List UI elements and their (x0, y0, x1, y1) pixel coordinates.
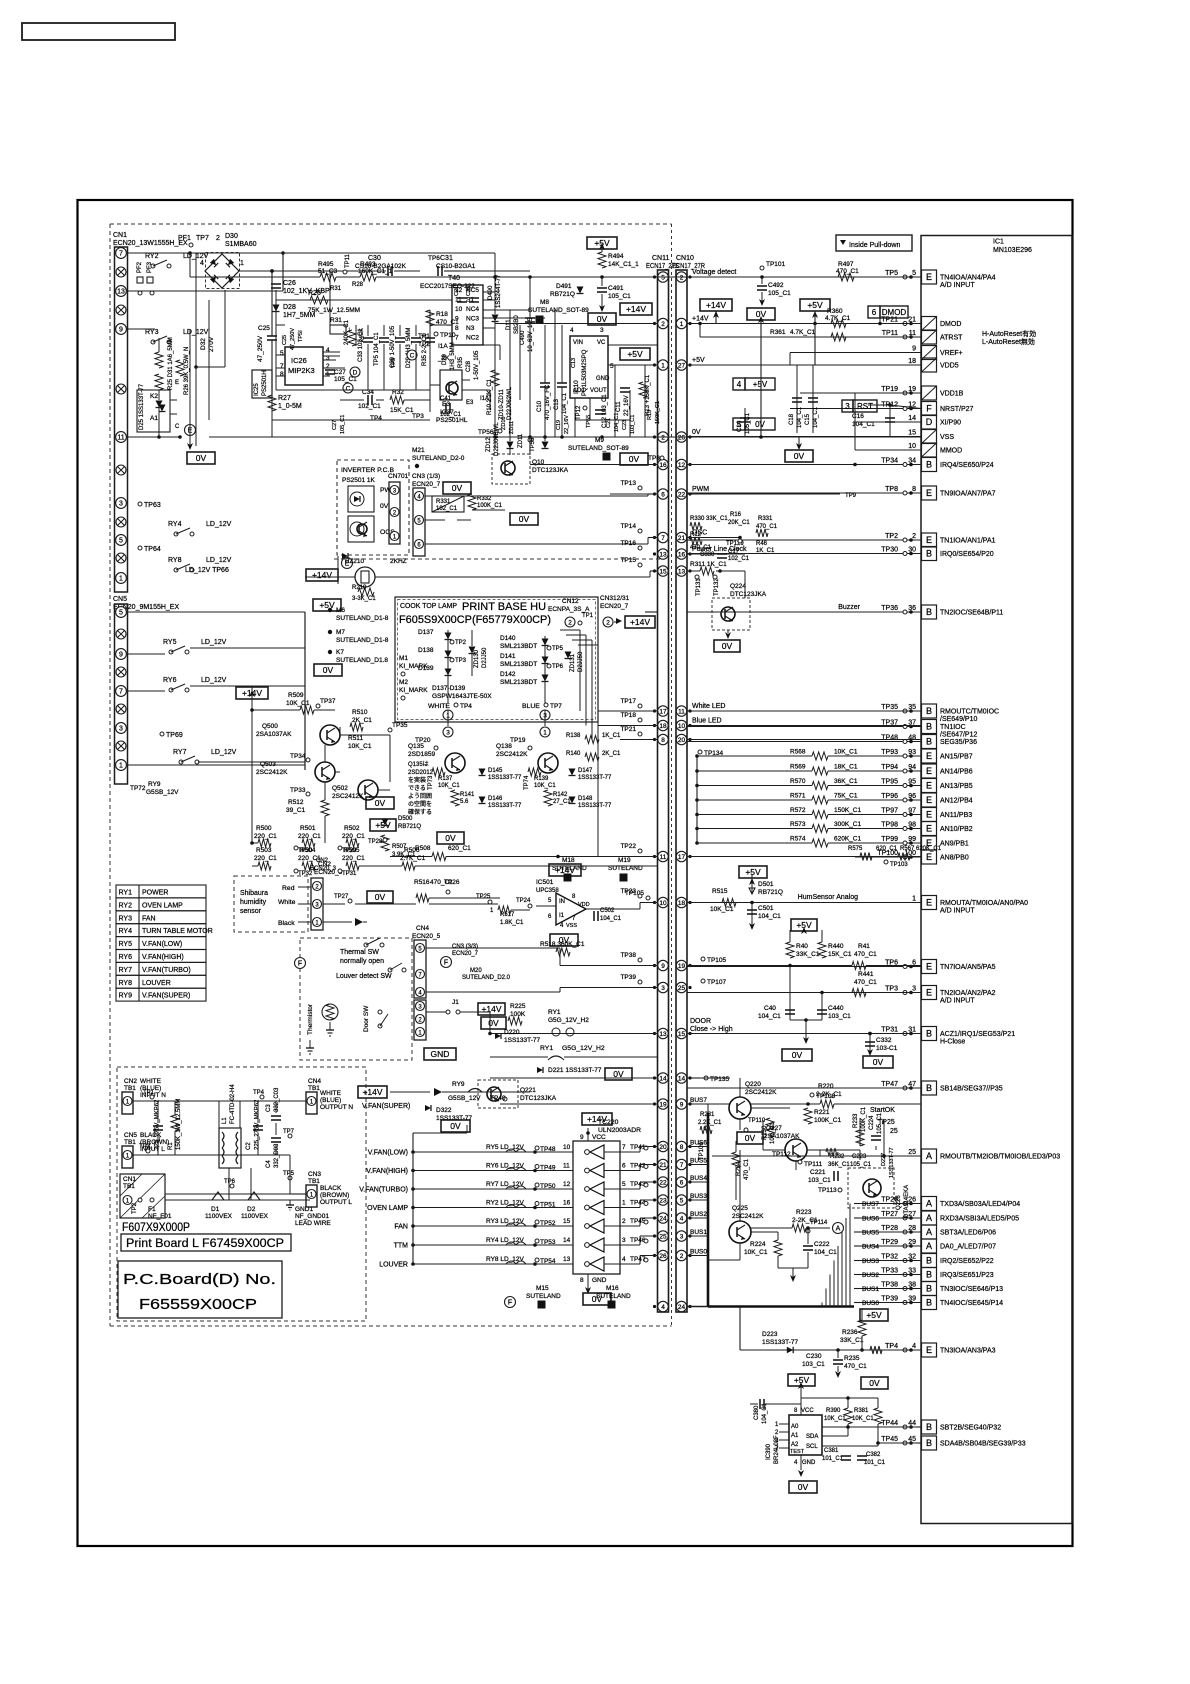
svg-text:104_C1: 104_C1 (758, 913, 781, 920)
rail y420 (340, 399, 364, 401)
svg-text:TP112: TP112 (772, 1151, 791, 1158)
svg-text:D137-D139: D137-D139 (432, 685, 466, 692)
svg-text:220_C1: 220_C1 (342, 855, 365, 862)
svg-text:R332: R332 (477, 496, 492, 502)
svg-text:17: 17 (659, 708, 667, 715)
svg-text:C21: C21 (454, 286, 460, 296)
svg-text:SUTELAND_SOT-89: SUTELAND_SOT-89 (568, 445, 629, 452)
wire left CN5 rail to Q cluster (304, 612, 306, 770)
svg-text:15K_C1: 15K_C1 (828, 951, 852, 958)
connector CN2 TB1 INPUT N (122, 1078, 166, 1114)
svg-text:R441: R441 (858, 971, 874, 978)
svg-text:0V: 0V (375, 798, 386, 808)
svg-text:B: B (926, 1422, 932, 1432)
svg-text:IN: IN (559, 899, 565, 905)
svg-text:R40: R40 (796, 943, 808, 950)
svg-text:ECNPA_3S_A: ECNPA_3S_A (548, 606, 590, 613)
svg-text:9: 9 (680, 1101, 684, 1108)
svg-text:C: C (410, 352, 415, 359)
svg-text:103_C1: 103_C1 (828, 1013, 851, 1020)
svg-text:Q220: Q220 (745, 1081, 761, 1088)
relay coil sym at 1189 (506, 1186, 526, 1189)
svg-text:R493: R493 (360, 261, 376, 268)
svg-text:TP22: TP22 (620, 843, 636, 850)
svg-text:105_C1: 105_C1 (340, 415, 346, 434)
svg-text:100K: 100K (510, 1011, 526, 1018)
svg-text:SML213BDT: SML213BDT (500, 661, 537, 668)
svg-text:E: E (926, 852, 932, 862)
svg-text:DTC123JKA: DTC123JKA (520, 1095, 557, 1102)
svg-text:332_C03: 332_C03 (274, 1087, 280, 1112)
svg-text:RY9: RY9 (452, 1081, 465, 1088)
bus row pins 1/27 +5V (653, 357, 705, 370)
wire CN1 row13 (127, 290, 283, 292)
svg-text:0V: 0V (722, 641, 733, 651)
svg-text:RB721Q: RB721Q (758, 889, 783, 896)
bus row pins 20/8 BUS6 (653, 1141, 692, 1151)
extra caps C19 C21 labels (556, 413, 636, 434)
svg-text:R233: R233 (853, 1113, 859, 1128)
svg-text:/SE647/P12: /SE647/P12 (940, 732, 977, 739)
svg-text:2SD2012: 2SD2012 (408, 770, 434, 776)
svg-text:Blue LED: Blue LED (692, 718, 722, 725)
net label box +5V (587, 237, 617, 249)
svg-text:8: 8 (455, 325, 459, 332)
CN20 CN2 label (310, 858, 337, 872)
svg-text:0V: 0V (629, 454, 640, 464)
svg-text:WHITE: WHITE (320, 1090, 342, 1097)
svg-text:SUTELAND: SUTELAND (596, 1293, 631, 1300)
IC1 pin 30 IRQ0/SE654/P20 (687, 547, 994, 561)
svg-text:10: 10 (678, 723, 686, 730)
svg-text:18: 18 (908, 358, 916, 365)
svg-text:TP5: TP5 (391, 358, 397, 368)
svg-text:10: 10 (659, 900, 667, 907)
svg-text:V.FAN(LOW): V.FAN(LOW) (142, 941, 182, 948)
PWM OV OCS labels (380, 487, 397, 536)
wire bus to Q224 (687, 611, 721, 613)
svg-text:R510: R510 (352, 709, 368, 716)
svg-text:B: B (926, 1029, 932, 1039)
zener ZD130 D2JJ50 (469, 630, 489, 676)
transformer T40 ECC2017SEO-222 (420, 275, 483, 345)
svg-text:103-C1: 103-C1 (876, 1045, 898, 1052)
IC1 pin 39 TN4IOC/SE645/P14 (860, 1296, 1003, 1310)
svg-text:TN3IOA/AN3/PA3: TN3IOA/AN3/PA3 (940, 1348, 996, 1355)
svg-text:sensor: sensor (240, 908, 262, 915)
R515 10K_C1 (625, 888, 736, 913)
svg-text:33K_C1: 33K_C1 (796, 951, 820, 958)
svg-text:NF_GND01: NF_GND01 (295, 1213, 329, 1220)
bus label BUS1 (854, 1286, 921, 1293)
StartOK riser (883, 1120, 885, 1156)
svg-text:R573: R573 (790, 821, 806, 828)
row 365 +5V left (621, 344, 657, 346)
svg-text:VSS: VSS (566, 923, 577, 929)
svg-text:ZD10-ZD11: ZD10-ZD11 (499, 388, 505, 420)
svg-text:の空間を: の空間を (408, 800, 432, 808)
svg-text:R221: R221 (814, 1109, 830, 1116)
svg-text:22: 22 (678, 491, 686, 498)
svg-text:TP24: TP24 (516, 898, 531, 904)
LED string wires (447, 630, 449, 703)
D491 RB721Q C491 105_C1 (550, 277, 631, 312)
C330 103_C1 C17 102_C1 (700, 549, 750, 562)
svg-text:SEG35/P36: SEG35/P36 (940, 739, 977, 746)
svg-text:TN9IOA/AN7/PA7: TN9IOA/AN7/PA7 (940, 491, 996, 498)
thermal sw dashed box (300, 938, 412, 1060)
D221 1SS133T-77 (537, 1067, 602, 1074)
fan row left rail (412, 1133, 414, 1264)
svg-text:V.FAN(HIGH): V.FAN(HIGH) (142, 954, 184, 961)
resistor R574 620K_C1 (695, 836, 861, 848)
net label box 0V (620, 453, 648, 465)
svg-text:K2: K2 (150, 393, 158, 400)
svg-text:R31: R31 (330, 286, 342, 292)
svg-text:GND: GND (802, 1460, 816, 1466)
M21 SUTELAND_D2-0 (412, 447, 465, 468)
svg-text:C14: C14 (737, 420, 743, 432)
svg-text:TP45: TP45 (630, 1218, 646, 1225)
bridge output rail (240, 270, 272, 272)
svg-text:24CK: 24CK (359, 328, 365, 342)
svg-text:TP44: TP44 (630, 1200, 646, 1207)
transistor Q138 2SC2412K (496, 737, 558, 773)
svg-text:WHITE: WHITE (140, 1078, 162, 1085)
svg-text:R235: R235 (844, 1355, 860, 1362)
svg-text:220_C1: 220_C1 (342, 833, 365, 840)
svg-text:M2: M2 (399, 679, 408, 686)
svg-text:TXD3A/SB03A/LED4/P04: TXD3A/SB03A/LED4/P04 (940, 1201, 1020, 1208)
IC TC220 ULN2003ADR (573, 1119, 641, 1284)
relay contact RY8 (168, 557, 232, 572)
wires thermal rows (426, 947, 560, 949)
svg-text:2SC2412K: 2SC2412K (496, 751, 528, 758)
IC1 pin 37 TN1IOC (687, 720, 977, 739)
svg-text:BUS2: BUS2 (862, 1272, 879, 1279)
zener row wires (494, 437, 496, 449)
svg-text:6: 6 (661, 491, 665, 498)
svg-text:D145: D145 (488, 768, 503, 774)
svg-text:TP9: TP9 (845, 493, 857, 499)
riser BUS1 (825, 1289, 827, 1307)
svg-text:CN4: CN4 (416, 925, 429, 932)
connector CN10 ECN17_27R (672, 255, 705, 1312)
IC1 pin 6 TN7IOA/AN5/PA5 (687, 960, 996, 974)
svg-text:ECN20_7: ECN20_7 (452, 951, 479, 957)
LED D137 (418, 629, 467, 646)
svg-text:TP108: TP108 (816, 1093, 836, 1100)
svg-text:TN2IOC/SE64B/P11: TN2IOC/SE64B/P11 (940, 610, 1003, 617)
bus row pins 23/5 BUS3 (653, 1195, 692, 1205)
C40 104_C1 C440 103_C1 (758, 966, 851, 1045)
svg-text:470_C1: 470_C1 (854, 951, 877, 958)
svg-text:TP3: TP3 (455, 658, 467, 664)
K2 A1 opto box (137, 390, 170, 432)
svg-text:CN701: CN701 (388, 473, 409, 480)
svg-text:SUTELAND_D1-8: SUTELAND_D1-8 (336, 637, 389, 644)
IC1 pin 2 TN1IOA/AN1/PA1 (687, 533, 996, 547)
TP101 C492 (757, 261, 791, 306)
svg-text:R390: R390 (826, 1408, 841, 1414)
svg-text:20: 20 (678, 737, 686, 744)
svg-text:TP49: TP49 (540, 1165, 556, 1172)
svg-text:A/D INPUT: A/D INPUT (940, 282, 975, 289)
svg-text:0V: 0V (794, 451, 805, 461)
svg-text:R567 620K_C1: R567 620K_C1 (900, 846, 942, 852)
svg-text:4: 4 (560, 923, 564, 929)
svg-text:Q135: Q135 (408, 743, 424, 750)
svg-text:R515: R515 (712, 888, 728, 895)
IC1 pin 94 AN14/PB6 (855, 764, 973, 778)
svg-text:2: 2 (661, 434, 665, 441)
svg-text:1SS133T-77: 1SS133T-77 (488, 803, 522, 809)
svg-text:5: 5 (680, 1197, 684, 1204)
IC1 MN103E296 (921, 236, 1072, 1524)
diode D25 K2 A1 (139, 383, 166, 430)
svg-text:TP7: TP7 (196, 235, 209, 242)
svg-text:R26: R26 (308, 290, 321, 297)
svg-text:R31: R31 (330, 317, 342, 324)
svg-text:E: E (926, 781, 932, 791)
svg-text:R504: R504 (300, 847, 316, 854)
resistor R573 300K_C1 (695, 821, 861, 833)
R10 2.2K_C1 ZD10-ZD11 D22J06zWL (487, 370, 513, 420)
svg-text:ULN2003ADR: ULN2003ADR (598, 1127, 641, 1134)
R494 14K_C1_1 vertical (598, 243, 639, 268)
C490 10_63V_105 (520, 277, 535, 437)
svg-text:TP41: TP41 (630, 1144, 646, 1151)
svg-text:300K_C1: 300K_C1 (834, 821, 861, 828)
connector CN11 ECN17_27S (646, 255, 679, 1312)
svg-text:0V: 0V (445, 833, 456, 843)
IC1 pin 21 DMOD (800, 317, 961, 331)
svg-text:CN5: CN5 (124, 1132, 137, 1139)
TP66 (185, 567, 229, 574)
wire pin11 row (127, 436, 159, 438)
wires Q220 cluster (687, 1077, 730, 1079)
net label box 0V (367, 891, 393, 903)
svg-text:104_C1: 104_C1 (797, 406, 803, 428)
svg-text:D: D (353, 369, 358, 376)
svg-text:4: 4 (680, 1215, 684, 1222)
net label box 0V (187, 452, 215, 464)
svg-text:36K_C1: 36K_C1 (828, 1162, 850, 1168)
net label box +5V (788, 1374, 815, 1386)
svg-text:AN10/PB2: AN10/PB2 (940, 826, 973, 833)
E circle inverter (342, 558, 353, 569)
svg-text:2K_C1: 2K_C1 (602, 751, 621, 757)
svg-text:20: 20 (659, 1144, 667, 1151)
wire row 1078 (490, 1077, 657, 1079)
diodes D145 D146 1SS133T-77 (479, 768, 523, 809)
wire VREF pin9 (790, 352, 921, 354)
svg-text:TP72: TP72 (130, 785, 146, 792)
svg-text:/SE649/P10: /SE649/P10 (940, 716, 977, 723)
svg-text:14: 14 (908, 415, 916, 422)
R25 R26 resistors 39K (168, 337, 190, 395)
bus label BUS2 (854, 1272, 921, 1279)
svg-text:1-50V_105: 1-50V_105 (474, 350, 480, 380)
svg-text:8: 8 (912, 486, 916, 493)
svg-text:CN4: CN4 (308, 1078, 321, 1085)
svg-text:R311 1K_C1: R311 1K_C1 (690, 561, 727, 568)
svg-text:15: 15 (563, 1218, 571, 1225)
net label box +5V (800, 299, 830, 311)
riser BUS3 (833, 1261, 835, 1307)
svg-text:10K_C1: 10K_C1 (834, 749, 858, 756)
connector CN4 ECN20_5 (412, 925, 441, 998)
svg-text:V.FAN(SUPER): V.FAN(SUPER) (142, 993, 190, 1000)
svg-text:ECN20_5: ECN20_5 (412, 933, 441, 940)
svg-text:VREF+: VREF+ (940, 350, 963, 357)
ZD12 D22J06BWL (486, 422, 514, 456)
svg-text:TP31: TP31 (881, 1027, 898, 1034)
svg-text:F: F (444, 959, 448, 966)
E point circle (185, 425, 196, 436)
svg-text:21: 21 (659, 1162, 667, 1169)
svg-text:F1: F1 (148, 1206, 156, 1213)
svg-text:D11: D11 (506, 319, 512, 330)
riser BUS0 (821, 1303, 823, 1307)
wire row 856 R508 (381, 835, 657, 861)
svg-text:240K_C1: 240K_C1 (344, 319, 350, 345)
Thermal SW normally open (340, 938, 384, 965)
TP22 TP23 labels (620, 843, 642, 898)
svg-text:1H3_5MM: 1H3_5MM (450, 342, 456, 370)
svg-text:TP131: TP131 (696, 578, 702, 596)
svg-text:A: A (926, 1227, 932, 1237)
svg-text:18K_C1: 18K_C1 (834, 764, 858, 771)
svg-text:M21: M21 (412, 447, 425, 454)
eeprom wires (800, 1398, 802, 1415)
svg-text:VCC: VCC (801, 1408, 814, 1414)
svg-text:CN3: CN3 (308, 1171, 321, 1178)
svg-text:22_16V: 22_16V (624, 395, 630, 416)
svg-text:TP114: TP114 (810, 1220, 828, 1226)
IC1 pin 8 TN9IOA/AN7/PA7 (687, 486, 996, 500)
svg-text:5: 5 (548, 898, 552, 904)
TP1 TP3 TP4 TP5 TP6 TP7 testpoints filter (139, 1090, 295, 1188)
caps C3 C4 332 (266, 1087, 281, 1168)
svg-text:4: 4 (661, 1304, 665, 1311)
wire buzzer row to bus (420, 576, 650, 578)
svg-text:NF_F01: NF_F01 (148, 1213, 172, 1220)
svg-text:13: 13 (678, 568, 686, 575)
ATRST note (982, 329, 1036, 346)
svg-text:M19: M19 (618, 857, 631, 864)
svg-text:+5V: +5V (807, 300, 823, 310)
svg-text:10K_C1: 10K_C1 (770, 1122, 776, 1144)
svg-text:IRQ0/SE654/P20: IRQ0/SE654/P20 (940, 551, 994, 558)
svg-text:6: 6 (872, 308, 877, 317)
bus row pins 3/25 (653, 982, 692, 992)
svg-text:8: 8 (580, 1277, 584, 1284)
svg-text:0V: 0V (519, 514, 530, 524)
svg-text:E: E (926, 898, 932, 908)
D q circles (343, 367, 360, 393)
svg-text:TP45: TP45 (881, 1436, 898, 1443)
svg-text:4: 4 (326, 347, 330, 354)
svg-text:A/D INPUT: A/D INPUT (940, 998, 975, 1005)
net label box 0V (366, 797, 394, 809)
svg-text:+14V: +14V (692, 316, 709, 323)
svg-text:10K_C1: 10K_C1 (348, 743, 372, 750)
svg-text:Door SW: Door SW (363, 1005, 370, 1032)
R330 33K_C1 R16 20K_C1 (690, 512, 750, 530)
wire TP19/TP12 rows (855, 392, 921, 394)
svg-text:C25: C25 (258, 325, 270, 332)
D501 RB721Q (749, 874, 783, 904)
bus row pins 8/20 (653, 734, 692, 744)
svg-text:TN1IOA/AN1/PA1: TN1IOA/AN1/PA1 (940, 538, 996, 545)
svg-text:Q224: Q224 (730, 583, 746, 590)
svg-text:CN10: CN10 (676, 255, 694, 262)
bus row pins 11/17 (653, 851, 692, 861)
svg-text:75K_C1: 75K_C1 (834, 793, 858, 800)
svg-text:TP3: TP3 (412, 413, 424, 420)
svg-text:AN14/PB6: AN14/PB6 (940, 769, 973, 776)
svg-text:TP18: TP18 (620, 712, 636, 719)
note Q135 japanese (408, 761, 434, 816)
svg-text:8: 8 (661, 737, 665, 744)
net label box +14V (700, 299, 732, 311)
svg-text:13: 13 (117, 288, 125, 295)
svg-text:R25 D31 1A6_5MM: R25 D31 1A6_5MM (168, 337, 174, 390)
svg-text:B: B (926, 1284, 932, 1294)
svg-text:BR24L02F: BR24L02F (774, 1435, 780, 1464)
svg-text:9: 9 (912, 346, 916, 353)
svg-text:RY1: RY1 (548, 1009, 561, 1016)
svg-text:IC390: IC390 (766, 1443, 772, 1460)
svg-text:BUS5: BUS5 (690, 1158, 707, 1165)
R137 10K_C1 R141 5.6 (428, 768, 475, 806)
svg-text:Q502: Q502 (332, 785, 348, 792)
svg-text:BLUE: BLUE (522, 703, 540, 710)
svg-text:5: 5 (622, 1181, 626, 1188)
svg-text:ZD12: ZD12 (486, 437, 492, 452)
svg-text:TB1: TB1 (308, 1085, 320, 1092)
svg-text:SDA4B/SB04B/SEG39/P33: SDA4B/SB04B/SEG39/P33 (940, 1441, 1026, 1448)
svg-text:2: 2 (912, 533, 916, 540)
svg-text:220_C1: 220_C1 (254, 855, 277, 862)
R233 100K_C1 C224 105_C1 (853, 1106, 883, 1146)
svg-text:0V: 0V (380, 503, 389, 510)
riser BUS7 (849, 1204, 851, 1307)
svg-text:D322: D322 (436, 1107, 452, 1114)
svg-text:0V: 0V (450, 1121, 461, 1131)
svg-text:TP98: TP98 (881, 822, 898, 829)
svg-text:R518 360K_C1: R518 360K_C1 (540, 941, 585, 948)
IC1 pin 18 VDD5 (687, 358, 959, 372)
svg-text:7: 7 (680, 1162, 684, 1169)
svg-text:9: 9 (119, 651, 123, 658)
IC1 pin 99 AN9/PB1 (855, 836, 969, 850)
svg-text:C: C (346, 385, 351, 392)
TP109 vertical (699, 1104, 708, 1260)
svg-text:R502: R502 (344, 825, 360, 832)
numbered net box 4 +5V (733, 378, 745, 390)
svg-text:TP110: TP110 (748, 1118, 766, 1124)
svg-text:R331: R331 (758, 516, 773, 522)
black wire to 0V (323, 921, 352, 923)
svg-text:TP14: TP14 (620, 523, 636, 530)
svg-text:BUS4: BUS4 (690, 1175, 707, 1182)
svg-text:R361: R361 (770, 329, 786, 336)
svg-text:15: 15 (678, 1031, 686, 1038)
wire row437 left join (209, 436, 272, 438)
svg-text:1: 1 (119, 575, 123, 582)
